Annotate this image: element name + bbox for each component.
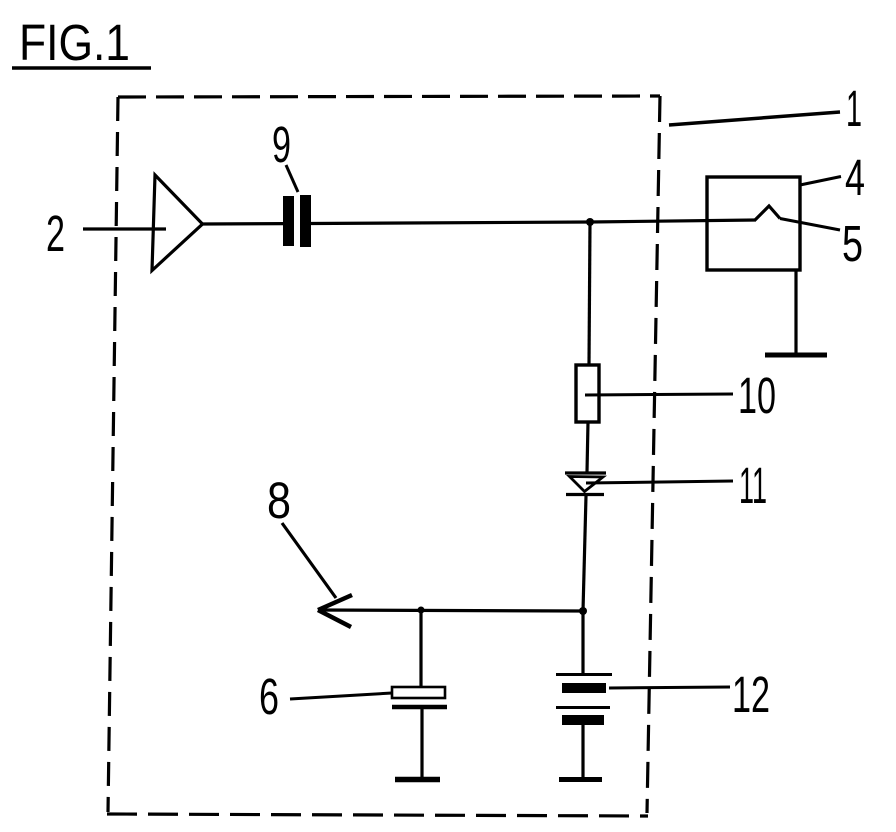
output arrow 8 [318, 595, 352, 627]
node B junction dot [579, 607, 587, 615]
svg-text:10: 10 [738, 367, 776, 424]
ground below capacitor 6 [395, 777, 440, 783]
wire: diode 11 to node B [583, 496, 586, 611]
wire: node B to battery 12 [581, 611, 584, 674]
leader line to label 12 [609, 687, 730, 688]
svg-text:2: 2 [46, 205, 65, 262]
svg-text:12: 12 [732, 666, 770, 723]
svg-text:11: 11 [739, 457, 767, 514]
leader line to label 11 [586, 481, 733, 483]
svg-text:5: 5 [842, 215, 863, 272]
enclosure 1: right dashed border [647, 96, 660, 813]
leader line to label 4 [800, 177, 841, 186]
wire: amplifier output to capacitor 9 [203, 222, 285, 226]
svg-text:6: 6 [259, 668, 279, 725]
wire: battery 12 to ground [581, 725, 584, 778]
svg-text:1: 1 [846, 80, 862, 137]
leader line to label 9 [286, 165, 298, 192]
svg-text:9: 9 [272, 116, 291, 173]
figure title FIG.1 [12, 14, 151, 71]
resistor 10 [576, 365, 599, 422]
svg-text:4: 4 [845, 149, 865, 206]
input terminal line 2 [83, 227, 166, 230]
battery 12 [556, 675, 612, 726]
svg-text:8: 8 [267, 472, 291, 529]
wire: node A down to resistor 10 [589, 222, 590, 365]
enclosure 1: top dashed border [118, 96, 660, 97]
amplifier triangle [152, 175, 203, 271]
ground below box 4 [765, 353, 827, 358]
enclosure 1: left dashed border [108, 97, 118, 812]
svg-text:FIG.1: FIG.1 [19, 14, 130, 71]
switch contact 5 (peak symbol) [755, 206, 780, 220]
diode 11 [565, 473, 606, 495]
leader line to label 8 [282, 523, 336, 598]
enclosure 1: bottom dashed border [107, 814, 648, 816]
wire: tap to capacitor 6 [419, 610, 422, 688]
leader line to label 6 [290, 693, 392, 699]
node A junction dot [586, 218, 594, 226]
capacitor 6 (electrolytic) [392, 687, 447, 707]
wire: resistor 10 to diode 11 [587, 422, 588, 472]
capacitor 9 [283, 195, 311, 247]
junction dot at capacitor 6 tap [418, 607, 425, 614]
box 4 (switch unit) [707, 177, 800, 270]
ground below battery 12 [559, 777, 602, 782]
wire: capacitor 6 to ground [420, 709, 423, 777]
wire: node A to box 4 [590, 220, 756, 222]
leader line to label 5 [780, 219, 840, 231]
wire: capacitor 9 to node A [311, 222, 590, 224]
wire: box 4 to ground [794, 270, 797, 353]
leader line to label 1 [669, 112, 840, 125]
leader line to label 10 [585, 394, 733, 395]
wire: arrow 8 to node B [318, 610, 583, 611]
